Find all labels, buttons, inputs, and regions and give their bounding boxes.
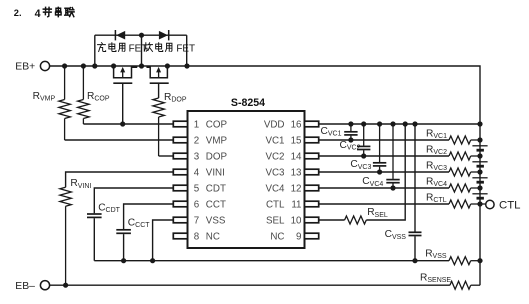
svg-text:4: 4 [35, 8, 41, 20]
junction CTL at battery rail [477, 201, 482, 206]
junction VDD line at RSEL riser [403, 121, 408, 126]
resistor RCTL [449, 200, 486, 208]
junction VDD line at x363 [361, 121, 366, 126]
resistor RVINI [60, 187, 71, 285]
svg-text:15: 15 [291, 136, 302, 147]
svg-text:1: 1 [194, 120, 199, 131]
resistor RVINI label [70, 178, 91, 190]
battery cell 4 [472, 194, 487, 198]
capacitor CVC3 [373, 124, 386, 172]
svg-text:12: 12 [291, 184, 302, 195]
junction RVINI on EB- line [63, 283, 68, 288]
junction CCCT on bus [121, 258, 126, 263]
capacitor CVC4 label [362, 176, 383, 188]
svg-text:NC: NC [270, 232, 284, 243]
wire EB+ positive rail and right vertical rail [50, 66, 480, 285]
svg-text:VSS: VSS [206, 216, 226, 227]
junction CVC4 on VC4 line [390, 185, 395, 190]
svg-text:CCT: CCT [206, 200, 226, 211]
svg-text:EB–: EB– [15, 281, 35, 292]
wire VC1 pin 15 line [319, 139, 449, 141]
capacitor CCCT label [128, 218, 150, 230]
wire EB- line [50, 284, 450, 286]
resistor RVC1 label [426, 128, 447, 140]
capacitor CVC3 label [350, 159, 371, 171]
junction rail at RVMP [62, 63, 67, 68]
junction VDD line at CVSS riser [412, 121, 417, 126]
IC left pin stubs 1-8 [173, 121, 187, 239]
svg-text:VINI: VINI [206, 168, 225, 179]
svg-text:CTL: CTL [266, 200, 285, 211]
op-amp U1 S-8254 label [231, 97, 265, 109]
resistor RCOP label [87, 91, 110, 103]
svg-text:VC2: VC2 [265, 152, 284, 163]
label discharging FET (放电用FET) [144, 43, 195, 55]
junction RVSS at right rail [477, 258, 482, 263]
junction VDD line at x379 [377, 121, 382, 126]
resistor RVC3 label [426, 160, 447, 172]
capacitor CVC2 label [340, 140, 361, 152]
capacitor CVC1 label [321, 126, 342, 138]
wire FET-box middle vertical [141, 35, 143, 66]
junction CVSS on ground bus [412, 258, 417, 263]
svg-text:CDT: CDT [206, 184, 226, 195]
resistor RSEL [345, 216, 367, 224]
battery cell 2 [472, 162, 487, 166]
junction VDD line at x393 [390, 121, 395, 126]
svg-text:14: 14 [291, 152, 302, 163]
svg-text:SEL: SEL [266, 216, 285, 227]
title text 2. [14, 8, 22, 18]
capacitor CCDT [87, 214, 102, 217]
junction VC4 at battery rail [477, 185, 482, 190]
resistor RVC1 [449, 136, 480, 144]
wire VC3 pin 13 line [319, 171, 449, 173]
wire FET-box right vertical [186, 35, 188, 66]
svg-text:NC: NC [206, 232, 220, 243]
junction rail mid between FETs [139, 63, 144, 68]
wire VC4 pin 12 line [319, 187, 449, 189]
wire COP line to pin 1 [83, 123, 173, 125]
wire CCCT to ground bus [123, 234, 125, 261]
svg-text:7: 7 [194, 216, 199, 227]
diode arrow right (discharge direction) [159, 30, 169, 40]
resistor RVC2 label [426, 144, 447, 156]
svg-text:VDD: VDD [264, 120, 285, 131]
battery cell 3 [472, 178, 487, 182]
resistor RVC4 label [426, 176, 447, 188]
junction VC1 at battery rail [477, 137, 482, 142]
wire CTL pin 11 line [319, 203, 449, 205]
capacitor CVC2 [357, 124, 370, 156]
IC left pin numbers and names [194, 120, 228, 243]
svg-text:6: 6 [194, 200, 200, 211]
svg-text:10: 10 [291, 216, 302, 227]
transistor discharge FET Q2 [147, 66, 169, 83]
junction CVC2 on VC2 line [361, 153, 366, 158]
junction rail at box-left [92, 63, 97, 68]
capacitor CVSS label [385, 229, 407, 241]
capacitor CVC1 [344, 124, 357, 140]
resistor RSENSE label [420, 272, 451, 284]
wire RSEL to VDD riser [366, 124, 405, 220]
wire FET-box top line [95, 34, 187, 36]
resistor RDOP label [164, 92, 187, 104]
junction rail at box-right [184, 63, 189, 68]
resistor RCOP [78, 66, 89, 124]
wire CCT line to pin 6 [124, 204, 174, 229]
svg-text:VC1: VC1 [265, 136, 284, 147]
svg-text:DOP: DOP [206, 152, 228, 163]
resistor RVSS label [425, 248, 447, 260]
wire DOP line to pin 3 [159, 155, 174, 157]
svg-text:EB+: EB+ [15, 62, 35, 73]
wire CDT line to pin 5 [94, 188, 174, 213]
svg-text:3: 3 [194, 152, 200, 163]
CTL terminal label [499, 199, 521, 211]
junction rail at FET1 source [111, 63, 116, 68]
svg-text:11: 11 [291, 200, 301, 211]
svg-text:9: 9 [296, 232, 301, 243]
svg-text:16: 16 [291, 120, 302, 131]
title text 4-cell series (4节串联) [35, 7, 75, 20]
resistor RSENSE [450, 281, 480, 289]
IC U1 S-8254 body [188, 111, 305, 248]
capacitor CVSS [409, 124, 422, 261]
junction rail at FET2 drain [165, 63, 170, 68]
resistor RCTL label [426, 192, 447, 204]
resistor RVMP label [33, 91, 56, 103]
svg-text:5: 5 [194, 184, 200, 195]
IC right pin stubs 9-16 [305, 121, 319, 239]
resistor RVSS [449, 257, 480, 265]
resistor RSEL label [367, 207, 388, 219]
wire FET2 gate lead down to RDOP [158, 83, 160, 98]
resistor RVC4 [449, 184, 480, 192]
wire VC2 pin 14 line [319, 155, 449, 157]
capacitor CCCT [116, 230, 131, 234]
junction FET1 gate on COP line [120, 121, 125, 126]
svg-text:VC3: VC3 [265, 168, 285, 179]
wire VSS pin 7 down to ground bus [153, 220, 174, 261]
resistor RVMP [59, 66, 70, 140]
EB+ terminal circle [40, 61, 49, 70]
wire FET1 gate lead down to COP line [122, 83, 124, 124]
junction CVC1 on VC1 line [348, 137, 353, 142]
EB- terminal label [15, 281, 35, 292]
wire VSS ground bus [94, 260, 449, 262]
diode arrow left (charge direction) [115, 30, 125, 40]
junction CVC3 on VC3 line [377, 169, 382, 174]
resistor RVC2 [449, 152, 480, 160]
junction VSS wire on bus [150, 258, 155, 263]
svg-text:FET: FET [176, 43, 195, 54]
junction rail at RCOP [81, 63, 86, 68]
IC right pin names and numbers [264, 120, 302, 243]
resistor RVC3 [449, 168, 480, 176]
svg-text:VMP: VMP [206, 136, 228, 147]
wire VINI line to pin 4 [66, 172, 174, 187]
resistor RDOP [153, 98, 164, 156]
svg-text:2.: 2. [14, 8, 22, 18]
wire CCDT to ground bus [93, 218, 95, 261]
svg-text:VC4: VC4 [265, 184, 285, 195]
capacitor CVC4 [386, 124, 399, 188]
wire VMP line to pin 2 [65, 139, 174, 141]
junction VC3 at battery rail [477, 169, 482, 174]
junction VDD at right rail [477, 121, 482, 126]
wire VDD pin 16 line to right rail [319, 123, 480, 125]
EB+ terminal label [15, 62, 35, 73]
svg-text:2: 2 [194, 136, 199, 147]
label charging FET (充电用FET) [98, 43, 148, 55]
capacitor CCDT label [98, 203, 120, 215]
transistor charge FET Q1 [113, 66, 136, 83]
battery cell 1 [472, 146, 487, 150]
junction on FET-box top line [139, 33, 144, 38]
svg-text:13: 13 [291, 168, 302, 179]
wire FET-box left vertical [94, 35, 96, 66]
svg-text:CTL: CTL [499, 199, 521, 211]
EB- terminal circle [40, 281, 49, 290]
junction VDD line at x350 [348, 121, 353, 126]
svg-text:8: 8 [194, 232, 200, 243]
svg-text:4: 4 [194, 168, 200, 179]
junction VC2 at battery rail [477, 153, 482, 158]
CTL terminal circle [486, 200, 494, 208]
wire SEL pin 10 lead [319, 219, 345, 221]
svg-text:S-8254: S-8254 [231, 97, 265, 109]
svg-text:COP: COP [206, 120, 228, 131]
